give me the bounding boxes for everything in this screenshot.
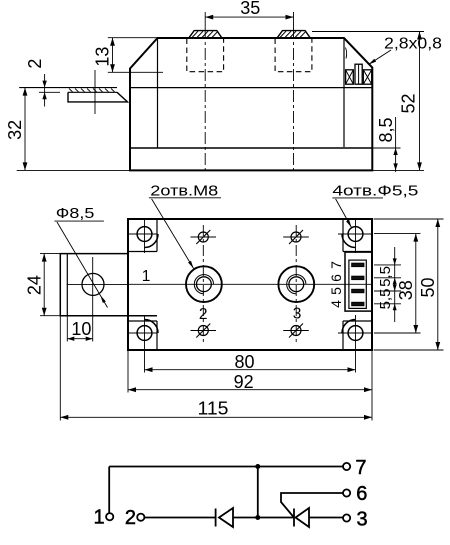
svg-text:4: 4: [328, 300, 344, 308]
mounting hole TL: [128, 219, 158, 253]
label 4отв.Ф5,5 with leader: [332, 198, 383, 228]
tab hole: [82, 273, 104, 295]
wire: middle vertical: [257, 467, 259, 518]
dimension 92: [128, 350, 372, 421]
svg-text:92: 92: [234, 372, 254, 392]
mounting hole BR: [338, 315, 372, 373]
svg-text:24: 24: [24, 275, 44, 295]
dimension 115: [60, 316, 372, 421]
svg-text:6: 6: [328, 274, 344, 282]
label Ф8,5 with leader: [54, 221, 107, 307]
thyristor gate wire to terminal 6: [281, 493, 343, 518]
module body outline (side view): [130, 38, 372, 170]
small hole D (bottom right): [283, 324, 309, 338]
stud 1 cap: [189, 31, 222, 38]
svg-text:50: 50: [418, 277, 438, 297]
mounting hole BL: [128, 315, 158, 373]
svg-text:6: 6: [356, 483, 367, 505]
wire: diode to junction to thyristor: [233, 517, 294, 519]
wire: terminal 2 to diode: [145, 517, 216, 519]
svg-text:8,5: 8,5: [376, 117, 396, 142]
svg-text:3: 3: [356, 509, 367, 531]
small hole C (bottom left): [191, 324, 217, 338]
junction node (bottom): [255, 515, 260, 520]
svg-text:115: 115: [198, 398, 229, 418]
svg-text:2: 2: [25, 59, 45, 69]
wire: top bus from node1 to terminal 7: [109, 466, 343, 468]
dimension 8,5: [372, 117, 400, 172]
terminal 7: [343, 463, 350, 470]
ear TL: [128, 219, 157, 252]
dimension 35: [205, 12, 293, 27]
long horizontal centerline: [128, 283, 372, 285]
body internal edge left: [157, 38, 159, 148]
terminal 3: [343, 514, 350, 521]
svg-text:1: 1: [142, 268, 151, 285]
module body outline (top view): [128, 219, 372, 350]
svg-text:2: 2: [125, 507, 136, 529]
baseplate flange line: [130, 147, 372, 149]
connector block (top view): [345, 252, 372, 311]
stud 2 hidden hole (dashed): [275, 39, 312, 72]
svg-text:2,8x0,8: 2,8x0,8: [384, 36, 442, 53]
stud 1 centerline: [204, 27, 206, 174]
dimension 52: [312, 32, 424, 171]
terminal 6: [343, 489, 350, 496]
dimension 80: [145, 367, 356, 372]
dimension 10: [67, 257, 92, 342]
body parting line: [130, 87, 372, 89]
svg-text:1: 1: [93, 506, 104, 528]
wire: left drop to terminal 1: [108, 467, 110, 514]
stud 1 hidden hole (dashed): [187, 39, 224, 72]
corner fillet arc right: [346, 48, 347, 59]
ear BR: [343, 321, 372, 350]
ear BL: [128, 321, 157, 350]
mounting hole TR: [338, 219, 372, 253]
small hole B (top right): [283, 230, 309, 244]
svg-text:2: 2: [199, 306, 208, 323]
dimension 50: [374, 219, 444, 350]
stud 2 centerline: [293, 27, 295, 174]
svg-text:4отв.Ф5,5: 4отв.Ф5,5: [332, 183, 418, 199]
dimension 32: [17, 88, 130, 171]
mounting tab (top view): [60, 254, 157, 316]
terminal 2: [137, 514, 144, 521]
terminal hole 2 (M8): [186, 266, 222, 302]
dimension 13: [108, 38, 163, 73]
thyristor VS1: [294, 508, 309, 527]
svg-text:2отв.М8: 2отв.М8: [150, 183, 218, 199]
dimension 24: [40, 254, 60, 316]
label 2,8x0,8 with leader: [369, 50, 392, 65]
svg-text:5: 5: [328, 287, 344, 295]
svg-text:52: 52: [399, 93, 419, 113]
vertical centerline through holes (right column): [295, 225, 297, 344]
svg-text:10: 10: [71, 319, 91, 339]
terminal hole 3 (M8): [278, 266, 314, 302]
svg-text:7: 7: [328, 261, 344, 269]
diode VD1: [216, 508, 233, 527]
right flat terminals (side view): [346, 64, 372, 84]
terminal 1: [106, 513, 113, 520]
dimension 5,5 x2: [374, 247, 401, 322]
svg-text:32: 32: [5, 120, 25, 140]
svg-text:5,5: 5,5: [377, 266, 394, 287]
svg-text:80: 80: [234, 352, 254, 372]
svg-text:3: 3: [293, 306, 302, 323]
vertical centerline through holes (left column): [202, 225, 204, 344]
body internal edge right: [343, 38, 345, 147]
svg-text:35: 35: [240, 0, 260, 18]
stud 2 cap: [277, 31, 310, 38]
pin number labels 4 5 6 7: [328, 261, 344, 308]
svg-text:38: 38: [396, 280, 416, 300]
left tab terminal (side view): [19, 70, 127, 114]
ear TR: [343, 219, 372, 252]
svg-text:Ф8,5: Ф8,5: [56, 205, 95, 222]
label 2отв.М8 with leader: [149, 198, 221, 269]
svg-text:7: 7: [355, 457, 366, 479]
wire: thyristor to terminal 3: [309, 517, 343, 519]
svg-text:5,5: 5,5: [377, 289, 394, 310]
dimension 38: [374, 234, 421, 333]
small hole A (top left): [191, 230, 217, 244]
junction node (top): [255, 464, 260, 469]
svg-text:13: 13: [93, 47, 113, 67]
dimension 2 (tab thickness): [39, 74, 60, 107]
